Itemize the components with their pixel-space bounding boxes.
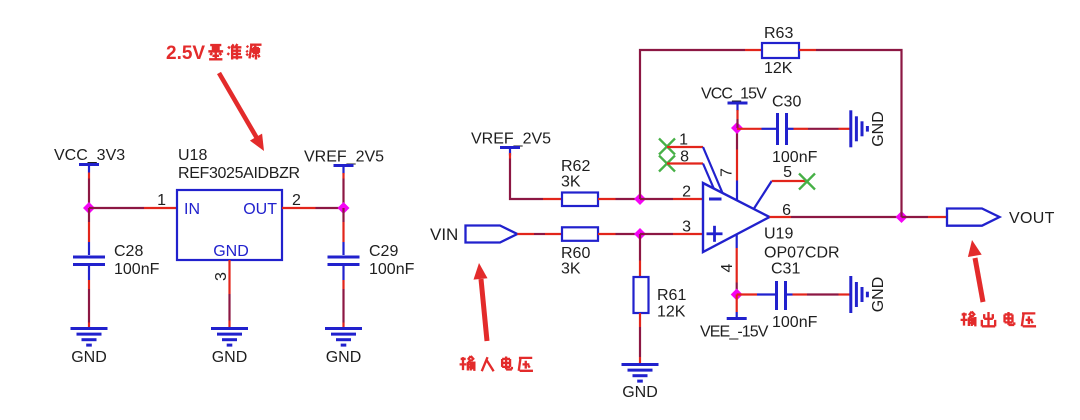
svg-text:GND: GND bbox=[870, 111, 887, 147]
annotation arrow (2.5V reference) bbox=[219, 73, 264, 151]
svg-text:1: 1 bbox=[679, 132, 688, 149]
svg-text:3K: 3K bbox=[561, 174, 581, 191]
wire junction to VEE bar bbox=[736, 295, 738, 313]
svg-text:VREF_2V5: VREF_2V5 bbox=[304, 149, 384, 166]
pin 4 wire bbox=[736, 248, 738, 283]
svg-text:3: 3 bbox=[213, 272, 230, 281]
wire VREF_2V5 to junction bbox=[342, 173, 344, 179]
svg-text:GND: GND bbox=[326, 349, 362, 366]
power symbol VCC_3V3 bbox=[79, 165, 99, 173]
power symbol VREF_2V5 (right) bbox=[500, 148, 520, 156]
ground symbol (C30, rotated) bbox=[851, 110, 868, 147]
wire stub R63 right bbox=[799, 49, 816, 51]
svg-text:VREF_2V5: VREF_2V5 bbox=[471, 131, 551, 148]
wire VCC_15V to junction bbox=[736, 110, 738, 119]
wire U18 pin 3 to ground bbox=[228, 260, 230, 294]
wire C30 to ground bbox=[788, 128, 794, 130]
pin 1 wire bbox=[667, 146, 703, 148]
wire junction to C31 bbox=[737, 293, 757, 295]
pin 5 lead (diagonal) bbox=[754, 181, 772, 209]
pin 7 wire bbox=[736, 131, 738, 150]
wire C28 to ground bbox=[88, 280, 90, 289]
annotation 2.5V reference source bbox=[166, 43, 262, 64]
wire stub R62 left bbox=[543, 198, 562, 200]
svg-text:OUT: OUT bbox=[243, 201, 277, 218]
power symbol VCC_15V bbox=[728, 103, 748, 111]
svg-text:VEE_-15V: VEE_-15V bbox=[700, 324, 769, 341]
annotation input voltage text bbox=[460, 356, 533, 371]
port VOUT bbox=[947, 209, 1000, 226]
ground symbol (C29) bbox=[325, 329, 362, 346]
svg-text:VIN: VIN bbox=[430, 225, 458, 244]
junction node output bbox=[896, 211, 908, 223]
wire VREF_2V5 to R62 bbox=[510, 159, 543, 200]
ground symbol (R61) bbox=[622, 365, 659, 382]
IC U18 body bbox=[177, 190, 282, 260]
wire stub R63 left bbox=[745, 49, 762, 51]
op-amp U19 body bbox=[703, 183, 770, 252]
capacitor C29 bbox=[328, 242, 360, 280]
svg-text:GND: GND bbox=[870, 277, 887, 313]
svg-text:IN: IN bbox=[184, 201, 200, 218]
svg-text:OP07CDR: OP07CDR bbox=[764, 245, 840, 262]
wire junction to op-amp pin 2 bbox=[640, 198, 673, 200]
pin 5 wire bbox=[772, 180, 807, 182]
pin 8 wire bbox=[667, 162, 703, 164]
wire junction to R61 bbox=[639, 234, 641, 261]
wire VCC_3V3 to junction bbox=[88, 173, 90, 179]
svg-text:8: 8 bbox=[680, 149, 689, 166]
power symbol VREF_2V5 (left) bbox=[334, 166, 354, 174]
svg-text:100nF: 100nF bbox=[369, 261, 415, 278]
junction node inverting input bbox=[634, 193, 646, 205]
annotation output voltage text bbox=[961, 312, 1036, 327]
junction node VCC_3V3 bbox=[83, 202, 95, 214]
svg-text:3K: 3K bbox=[561, 261, 581, 278]
capacitor C31 bbox=[777, 281, 786, 310]
pin 5 no-connect X bbox=[799, 174, 815, 190]
wire U18 pin 2 to junction bbox=[282, 207, 316, 209]
svg-text:100nF: 100nF bbox=[772, 314, 818, 331]
op-amp minus sign bbox=[709, 198, 722, 201]
svg-text:GND: GND bbox=[213, 243, 249, 260]
power symbol VEE_-15V bbox=[727, 312, 747, 319]
svg-text:100nF: 100nF bbox=[114, 261, 160, 278]
resistor R63 bbox=[762, 43, 799, 58]
svg-text:VCC_15V: VCC_15V bbox=[701, 86, 767, 103]
svg-text:GND: GND bbox=[212, 349, 248, 366]
svg-text:C28: C28 bbox=[114, 243, 143, 260]
wire junction to C28 bbox=[88, 208, 90, 222]
junction node VREF_2V5 bbox=[338, 202, 350, 214]
resistor R62 bbox=[562, 193, 598, 207]
feedback wire left segment bbox=[640, 50, 745, 199]
annotation arrow (input voltage) bbox=[474, 263, 488, 341]
feedback wire right segment bbox=[816, 50, 902, 217]
svg-text:R61: R61 bbox=[657, 287, 686, 304]
resistor R60 bbox=[562, 227, 598, 241]
svg-text:R60: R60 bbox=[561, 245, 590, 262]
svg-text:GND: GND bbox=[622, 384, 658, 401]
wire C29 to ground bbox=[342, 280, 344, 289]
svg-text:4: 4 bbox=[719, 264, 736, 273]
pin 8 no-connect X bbox=[659, 156, 675, 172]
pin 4 lead bbox=[736, 235, 738, 249]
junction node non-inverting input bbox=[634, 228, 646, 240]
svg-text:REF3025AIDBZR: REF3025AIDBZR bbox=[178, 165, 300, 182]
wire junction to VOUT port bbox=[902, 216, 929, 218]
annotation arrow (output voltage) bbox=[968, 240, 983, 302]
svg-text:R62: R62 bbox=[561, 158, 590, 175]
svg-text:7: 7 bbox=[719, 168, 736, 177]
pin 1 lead (diagonal) bbox=[703, 147, 723, 193]
svg-text:VCC_3V3: VCC_3V3 bbox=[54, 147, 125, 164]
resistor R61 bbox=[634, 277, 649, 313]
svg-text:2.5V: 2.5V bbox=[166, 43, 205, 64]
svg-text:3: 3 bbox=[682, 219, 691, 236]
wire VREF_2V5 stub bbox=[509, 153, 511, 159]
svg-text:2: 2 bbox=[292, 192, 301, 209]
wire junction to U18 pin 1 bbox=[89, 207, 144, 209]
wire junction to C30 bbox=[737, 128, 762, 130]
svg-text:1: 1 bbox=[157, 192, 166, 209]
junction node VCC_15V bbox=[731, 122, 743, 134]
svg-text:5: 5 bbox=[783, 164, 792, 181]
pin 8 lead (diagonal) bbox=[703, 164, 714, 190]
op-amp plus sign bbox=[707, 226, 723, 242]
svg-text:6: 6 bbox=[782, 202, 791, 219]
wire junction to op-amp pin 3 bbox=[640, 233, 673, 235]
svg-text:U19: U19 bbox=[764, 226, 793, 243]
svg-text:R63: R63 bbox=[764, 25, 793, 42]
pin 1 no-connect X bbox=[659, 139, 675, 155]
ground symbol (U18 pin 3) bbox=[211, 329, 248, 346]
svg-text:GND: GND bbox=[71, 349, 107, 366]
wire R62 to junction bbox=[598, 198, 616, 200]
junction node VEE bbox=[731, 289, 743, 301]
svg-text:C29: C29 bbox=[369, 243, 398, 260]
svg-text:2: 2 bbox=[682, 184, 691, 201]
pin 7 lead bbox=[736, 181, 738, 202]
wire pin 6 to output junction bbox=[791, 216, 902, 218]
svg-text:C31: C31 bbox=[771, 261, 800, 278]
svg-text:U18: U18 bbox=[178, 147, 207, 164]
wire R60 to junction bbox=[598, 233, 616, 235]
port VIN bbox=[466, 226, 518, 243]
capacitor C28 bbox=[73, 242, 105, 280]
ground symbol (C31, rotated) bbox=[851, 276, 868, 313]
capacitor C30 bbox=[778, 113, 787, 145]
svg-text:C30: C30 bbox=[772, 94, 801, 111]
svg-text:100nF: 100nF bbox=[772, 149, 818, 166]
wire R61 to ground bbox=[639, 313, 641, 327]
pin 6 wire bbox=[770, 216, 792, 218]
svg-text:VOUT: VOUT bbox=[1009, 210, 1055, 227]
svg-text:12K: 12K bbox=[764, 60, 793, 77]
wire junction to C29 bbox=[342, 208, 344, 222]
wire VIN to R60 bbox=[517, 233, 534, 235]
wire C31 to ground bbox=[787, 293, 793, 295]
ground symbol (C28) bbox=[71, 329, 108, 346]
svg-text:12K: 12K bbox=[657, 304, 686, 321]
